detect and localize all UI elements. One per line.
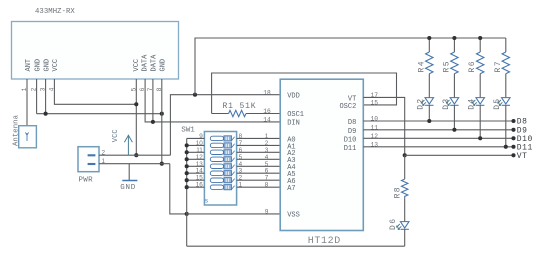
svg-text:433MHZ-RX: 433MHZ-RX <box>35 8 75 16</box>
wire VSS line <box>187 213 281 215</box>
wire RX pin6 DATA to DIN <box>145 79 280 122</box>
wire RX pin4 VCC <box>54 79 136 104</box>
wire SW1 pin8 to HT12D A0 <box>237 137 281 139</box>
svg-text:14: 14 <box>263 117 271 124</box>
wire VCC line PWR pin2 <box>99 154 170 156</box>
wire RX pin2 GND down <box>36 79 38 114</box>
junction D11 col4 <box>504 145 508 149</box>
svg-text:A7: A7 <box>287 185 295 193</box>
svg-text:Antenna: Antenna <box>13 114 21 146</box>
wire SW1 pin12 stub <box>187 158 205 160</box>
LED D5 <box>498 98 510 147</box>
svg-text:16: 16 <box>196 182 204 189</box>
wire RX pin5 VCC down <box>135 79 137 155</box>
svg-text:VCC: VCC <box>133 59 141 72</box>
wire D11 line <box>363 146 513 148</box>
junction SW1 bus row 12 <box>185 157 189 161</box>
IC U1 HT12D box <box>280 79 363 230</box>
svg-text:12: 12 <box>196 154 204 161</box>
resistor R5 <box>451 38 458 98</box>
junction rail col2 <box>452 36 456 40</box>
resistor R4 <box>426 38 433 98</box>
svg-text:D2: D2 <box>417 97 426 109</box>
svg-text:11: 11 <box>196 147 203 154</box>
junction pin3 GND <box>44 112 48 116</box>
svg-text:4: 4 <box>265 154 269 161</box>
LED D2 <box>421 98 433 121</box>
switch element SW1-6 <box>210 171 234 176</box>
svg-text:DATA: DATA <box>142 54 150 72</box>
svg-text:SW1: SW1 <box>181 126 195 134</box>
wire VCC riser to VDD <box>170 95 280 156</box>
wire SW1 pin15 stub <box>187 179 205 181</box>
svg-text:ANT: ANT <box>25 59 33 72</box>
junction SW1 bus row 11 <box>185 150 189 154</box>
pad D8 <box>511 119 515 123</box>
svg-text:s: s <box>205 198 209 205</box>
resistor R1 <box>212 110 281 116</box>
svg-text:OSC2: OSC2 <box>339 103 356 111</box>
svg-text:D4: D4 <box>468 97 477 109</box>
svg-text:D10: D10 <box>344 136 357 144</box>
junction SW1 bus row 13 <box>185 164 189 168</box>
junction pin8 GND <box>160 112 164 116</box>
svg-text:D3: D3 <box>442 97 451 109</box>
junction pin7 DIN <box>151 120 155 124</box>
svg-text:16: 16 <box>263 108 271 115</box>
wire SW1 pin4 to HT12D A4 <box>237 165 281 167</box>
svg-text:GND: GND <box>43 59 51 72</box>
svg-text:R1 51K: R1 51K <box>223 102 257 111</box>
svg-text:R8: R8 <box>394 186 403 198</box>
wire RX pin3 GND down <box>45 79 47 114</box>
svg-text:7: 7 <box>265 175 269 182</box>
pin names A0-A7 <box>287 136 295 193</box>
svg-text:VT: VT <box>517 152 528 161</box>
svg-text:GND: GND <box>34 59 42 72</box>
junction D9 col2 <box>452 128 456 132</box>
svg-text:14: 14 <box>196 168 204 175</box>
wire OSC2 loop <box>212 73 397 114</box>
pad D11 <box>511 145 515 149</box>
wire bottom GND rail <box>187 245 405 247</box>
svg-text:3: 3 <box>265 147 269 154</box>
svg-text:3: 3 <box>239 168 243 175</box>
svg-text:D6: D6 <box>389 218 398 230</box>
junction VDD rail drop <box>193 93 197 97</box>
wire RX pin8 GND down <box>161 79 163 164</box>
svg-text:15: 15 <box>371 100 379 107</box>
junction pin5 VCC top <box>134 102 138 106</box>
svg-text:6: 6 <box>265 168 269 175</box>
svg-text:D8: D8 <box>517 118 528 127</box>
svg-text:DIN: DIN <box>287 119 300 127</box>
svg-text:17: 17 <box>371 92 379 99</box>
svg-text:10: 10 <box>371 116 379 123</box>
junction rail col3 <box>478 36 482 40</box>
svg-text:R6: R6 <box>468 60 477 72</box>
wire SW1 pin2 to HT12D A6 <box>237 179 281 181</box>
switch element SW1-8 <box>210 185 234 190</box>
pad VT <box>511 153 515 157</box>
svg-text:HT12D: HT12D <box>308 236 341 247</box>
wire SW1 pin14 stub <box>187 172 205 174</box>
wire SW1 left bus <box>186 138 188 246</box>
svg-text:5: 5 <box>239 154 243 161</box>
switch element SW1-1 <box>210 136 234 141</box>
switch element SW1-7 <box>210 178 234 183</box>
svg-text:OSC1: OSC1 <box>287 111 304 119</box>
svg-text:VCC: VCC <box>52 59 60 72</box>
pin numbers 1 2 3 4 (rotated) <box>21 87 55 91</box>
pin names ANT GND GND VCC (rotated) <box>25 59 60 72</box>
wire SW1 pin16 stub <box>187 186 205 188</box>
wire VT to pad <box>405 154 514 156</box>
junction SW1 bus row 16 <box>185 185 189 189</box>
svg-text:8: 8 <box>239 133 243 140</box>
switch element SW1-2 <box>210 143 234 148</box>
junction D8 col1 <box>427 119 431 123</box>
pin names left VDD OSC1 DIN VSS <box>287 93 304 220</box>
svg-text:8: 8 <box>265 182 269 189</box>
svg-text:6: 6 <box>239 147 243 154</box>
svg-text:GND: GND <box>120 184 136 192</box>
wire RX pin1 to antenna <box>26 79 28 126</box>
resistor R6 <box>477 38 484 98</box>
wire D9 line <box>363 129 513 131</box>
junction D10 col3 <box>478 136 482 140</box>
svg-text:D9: D9 <box>348 128 356 136</box>
wire SW1 pin10 stub <box>187 144 205 146</box>
switch element SW1-3 <box>210 150 234 155</box>
power symbol VCC <box>124 135 132 155</box>
wire GND line PWR pin1 <box>99 163 170 165</box>
svg-text:VCC: VCC <box>112 129 120 142</box>
svg-text:GND: GND <box>160 59 168 72</box>
svg-text:1: 1 <box>265 133 269 140</box>
wire VCC top rail <box>195 38 506 95</box>
wire VT pin17 <box>363 97 404 155</box>
wire SW1 pin6 to HT12D A2 <box>237 151 281 153</box>
svg-text:1: 1 <box>239 182 243 189</box>
svg-text:11: 11 <box>371 125 379 132</box>
wire SW1 pin1 to HT12D A7 <box>237 186 281 188</box>
switch element SW1-4 <box>210 157 234 162</box>
wire GND riser to VSS <box>170 164 187 214</box>
pin names right VT OSC2 D8 D9 D10 D11 <box>339 95 356 152</box>
wire D8 line <box>363 120 513 122</box>
svg-text:15: 15 <box>196 175 204 182</box>
junction rail col1 <box>427 36 431 40</box>
junction VT R8 tap <box>403 153 407 157</box>
svg-text:R7: R7 <box>494 60 503 72</box>
junction pin8 PWR GND <box>160 162 164 166</box>
svg-text:9: 9 <box>199 133 203 140</box>
svg-text:12: 12 <box>371 133 379 140</box>
svg-text:D5: D5 <box>493 97 502 109</box>
junction SW1 bus row 10 <box>185 143 189 147</box>
wire RX pin7 DATA down <box>152 79 154 122</box>
resistor R8 <box>402 155 408 198</box>
junction pin5 VCC bottom <box>134 153 138 157</box>
LED D6 <box>397 198 409 246</box>
wire GND horizontal pins 2-3-8 <box>37 113 162 115</box>
wire D10 line <box>363 137 513 139</box>
pin numbers right 17 15 10 11 12 13 <box>371 92 379 148</box>
pin names VCC DATA DATA GND (rotated) <box>133 54 167 72</box>
wire SW1 pin5 to HT12D A3 <box>237 158 281 160</box>
wire SW1 pin13 stub <box>187 165 205 167</box>
wire SW1 pin11 stub <box>187 151 205 153</box>
pin numbers left 18 16 14 9 <box>263 89 271 215</box>
svg-text:R4: R4 <box>417 60 426 72</box>
pin numbers 5 6 7 8 (rotated) <box>130 87 163 91</box>
svg-text:DATA: DATA <box>151 54 159 72</box>
junction SW1 bus row 15 <box>185 178 189 182</box>
svg-text:D8: D8 <box>348 119 356 127</box>
svg-text:2: 2 <box>239 175 243 182</box>
junction VSS bus <box>185 212 189 216</box>
svg-text:9: 9 <box>265 208 269 215</box>
svg-text:R5: R5 <box>442 60 451 72</box>
LED D3 <box>446 98 458 130</box>
RF receiver module 433MHZ-RX <box>12 22 179 80</box>
antenna ANT1 <box>19 126 37 148</box>
ground symbol GND <box>122 164 137 181</box>
resistor R7 <box>502 38 509 98</box>
svg-text:VDD: VDD <box>287 93 300 101</box>
LED D4 <box>472 98 484 139</box>
junction SW1 bus row 14 <box>185 171 189 175</box>
wire SW1 pin9 stub <box>187 137 205 139</box>
svg-text:PWR: PWR <box>79 177 94 185</box>
svg-text:VSS: VSS <box>287 211 300 219</box>
svg-text:13: 13 <box>371 142 379 149</box>
pad D10 <box>511 136 515 140</box>
svg-text:D11: D11 <box>344 145 357 153</box>
connector PWR <box>78 147 99 172</box>
pad D9 <box>511 128 515 132</box>
wire SW1 pin7 to HT12D A1 <box>237 144 281 146</box>
switch element SW1-5 <box>210 164 234 169</box>
wire SW1 pin3 to HT12D A5 <box>237 172 281 174</box>
switch SW1 DIP-8 <box>204 132 236 206</box>
svg-text:18: 18 <box>263 89 271 96</box>
